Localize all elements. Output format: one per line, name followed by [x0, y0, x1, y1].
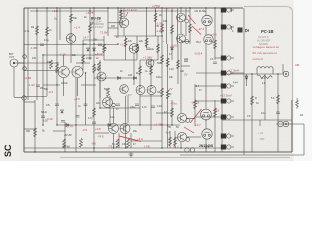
diode D5 — [87, 48, 90, 51]
transistor Q1 — [66, 34, 76, 44]
wire h35 — [231, 72, 244, 74]
node n16 — [155, 10, 156, 11]
wire v29 — [150, 94, 152, 130]
node n11 — [214, 7, 215, 8]
resistor R4 — [120, 10, 123, 19]
wire v5 — [56, 8, 58, 125]
node n34 — [75, 124, 76, 125]
ground symbol below frame — [129, 154, 134, 157]
resistor R16 — [107, 88, 110, 97]
node n6 — [146, 7, 147, 8]
resistor R8 — [124, 38, 127, 47]
svg-text:4Ω: 4Ω — [300, 114, 303, 117]
capacitor C8 — [116, 104, 120, 106]
wire v28 — [150, 60, 152, 86]
wire v68 — [303, 124, 305, 155]
transistor Q7 — [146, 59, 154, 67]
resistor R7 — [145, 38, 148, 47]
connector P1 — [221, 8, 234, 13]
resistor R13 — [50, 60, 53, 69]
resistor R21 — [63, 139, 66, 148]
node n30 — [161, 147, 162, 148]
node n24 — [99, 107, 100, 108]
resistor R14 — [82, 55, 85, 64]
wire v3 — [42, 55, 44, 125]
transistor Q18 (TO-3) — [202, 15, 212, 25]
red leader line to Q18 — [192, 26, 201, 35]
node n14 — [89, 10, 90, 11]
diode D10 — [134, 77, 137, 80]
wire v51 — [277, 74, 279, 152]
diode D3 — [61, 110, 64, 113]
transistor Q3 — [129, 44, 139, 54]
resistor R24 — [127, 139, 130, 148]
node n20 — [93, 43, 94, 44]
transistor Q13 — [120, 124, 130, 134]
scan noise overlay — [0, 0, 1, 1]
resistor R38 — [214, 40, 217, 49]
transistor Q17 — [177, 132, 186, 141]
node n17 — [171, 10, 172, 11]
wire v48 — [214, 100, 216, 152]
node E1 — [185, 19, 189, 23]
capacitor C7 — [276, 112, 280, 114]
wire h26 — [24, 128, 35, 130]
node n42 — [205, 119, 206, 120]
wire v4 — [46, 8, 48, 96]
wire v20 — [120, 8, 122, 28]
resistor R39 — [214, 108, 217, 117]
diode D6 — [93, 48, 96, 51]
red leader line lower driver — [184, 127, 194, 133]
connector P9 — [221, 145, 234, 150]
connector P5 — [221, 84, 234, 89]
terminal upper left — [23, 55, 27, 59]
node n4 — [107, 7, 108, 8]
wire h21 — [140, 95, 162, 97]
wire h10 — [43, 84, 60, 86]
sub-board box bottom right — [223, 120, 292, 152]
schematic sheet tint — [20, 4, 294, 161]
resistor R20 — [34, 128, 37, 137]
diode D7 by terminal F — [246, 29, 249, 32]
wire h2 — [108, 22, 119, 24]
node n9 — [189, 7, 190, 8]
resistor R37 — [56, 64, 59, 73]
wire v12 — [89, 8, 91, 60]
wire v7 — [64, 122, 66, 152]
node n19 — [56, 62, 57, 63]
transistor Q8 — [120, 85, 129, 94]
resistor R5 — [154, 13, 157, 22]
wire v53 — [123, 28, 125, 36]
wire v52 — [282, 64, 284, 74]
wire v66 — [59, 8, 61, 40]
terminal pair bottom — [185, 148, 195, 152]
resistor R17 — [161, 88, 164, 97]
wire v57 — [77, 78, 79, 96]
node n15 — [120, 10, 121, 11]
wire h30 — [215, 57, 221, 59]
node n21 — [117, 43, 118, 44]
svg-text:OUT: OUT — [9, 56, 15, 59]
resistor R41 — [171, 25, 174, 34]
wire v10 — [82, 40, 84, 70]
wire v0 — [27, 8, 29, 100]
wire v73 — [130, 152, 132, 157]
resistor R25 — [169, 137, 172, 146]
wire h1 — [118, 10, 190, 12]
wire v47 — [214, 8, 216, 60]
wire h36 — [14, 97, 24, 99]
connector P3 — [221, 56, 234, 61]
resistor R22 — [80, 139, 83, 148]
frame right lower border — [291, 100, 293, 152]
resistor R3 — [70, 14, 73, 23]
capacitor C3 — [55, 104, 59, 106]
wire v60 — [118, 133, 120, 148]
wire h31 — [196, 72, 221, 74]
wire h32 — [195, 85, 221, 87]
resistor R30 — [103, 44, 106, 53]
wire h34 — [195, 116, 221, 118]
wire v37 — [180, 8, 182, 13]
wire h39 — [108, 27, 118, 29]
wire h18 — [187, 136, 201, 138]
red arrow to Q2 — [126, 12, 129, 17]
wire v35 — [171, 100, 173, 125]
connector P2 — [221, 25, 234, 30]
resistor R_L1 parallel — [257, 74, 272, 79]
frame left border — [23, 8, 25, 152]
resistor R6 — [161, 24, 164, 33]
resistor R31 — [136, 44, 139, 53]
wire v22 — [125, 96, 127, 148]
capacitor C13 — [84, 104, 88, 106]
transistor Q6 — [97, 72, 106, 81]
wire v69 — [259, 120, 261, 126]
wire h24 — [83, 39, 104, 41]
wire v30 — [155, 8, 157, 36]
node n36 — [167, 124, 168, 125]
frame bottom border — [24, 151, 292, 153]
capacitor C15 — [61, 121, 65, 123]
wire v6 — [34, 100, 36, 152]
node n0 — [46, 7, 47, 8]
wire h9 — [94, 77, 136, 79]
wire h0 — [30, 10, 108, 12]
terminal lower left — [23, 67, 27, 71]
node n39 — [42, 124, 43, 125]
diode D8 — [245, 76, 248, 79]
wire v1 — [36, 8, 38, 100]
resistor R19 — [171, 108, 174, 117]
svg-text:SC: SC — [3, 144, 13, 157]
wire v65 — [185, 23, 187, 36]
wire h6 — [14, 62, 59, 64]
output terminal — [283, 71, 289, 77]
resistor R26 — [174, 137, 177, 146]
node n12 — [36, 10, 37, 11]
capacitor C6 — [184, 60, 188, 62]
node n10 — [205, 7, 206, 8]
node n13 — [56, 10, 57, 11]
module label BU-2B — [91, 17, 104, 29]
red leader line upper — [188, 15, 196, 24]
wire h23 — [140, 59, 158, 61]
node n25 — [139, 124, 140, 125]
wire h16 — [276, 123, 304, 125]
wire h14 — [222, 119, 292, 121]
wire v45 — [205, 120, 207, 129]
wire h20 — [24, 147, 222, 149]
wire v49 — [231, 8, 233, 12]
wire v34 — [171, 8, 173, 60]
node n18 — [42, 54, 43, 55]
wire v27 — [146, 8, 148, 48]
resistor R10 — [161, 55, 164, 64]
wire v50 — [251, 74, 253, 152]
wire v74 — [246, 74, 248, 86]
wire v75 — [177, 8, 179, 44]
node n33 — [56, 124, 57, 125]
input jack label BFT OUT — [9, 53, 15, 59]
wire v71 — [205, 8, 207, 15]
wire v41 — [189, 8, 191, 44]
wire v42 — [194, 84, 196, 126]
wire v14 — [99, 60, 101, 108]
wire v76 — [166, 8, 168, 44]
node E3 — [186, 119, 190, 123]
transistor Q20 (TO-3) — [201, 109, 212, 120]
wire h11 — [81, 84, 96, 86]
diode D4 — [171, 47, 174, 50]
wire h25 — [156, 112, 172, 114]
node n22 — [56, 84, 57, 85]
node n35 — [113, 147, 114, 148]
resistor R15 — [93, 64, 96, 73]
transistor Q2 — [119, 18, 129, 28]
node n44 — [139, 85, 140, 86]
resistor R28 — [277, 95, 280, 104]
node n32 — [205, 147, 206, 148]
resistor output net squiggle — [296, 98, 299, 109]
wire v54 — [123, 8, 125, 18]
resistor R40 — [194, 100, 197, 109]
node n41 — [161, 35, 162, 36]
transistor Q15 — [177, 34, 186, 43]
wire v36 — [177, 44, 179, 84]
frame top border — [24, 7, 243, 9]
resistor R1 — [36, 26, 39, 35]
wire v33 — [167, 44, 169, 148]
wire v9 — [75, 78, 77, 152]
node n7 — [161, 7, 162, 8]
wire v18 — [113, 133, 115, 148]
capacitor C11 — [135, 104, 139, 106]
inner vertical border x=222 — [221, 8, 223, 152]
wire v32 — [161, 8, 163, 148]
red leader line to Q20 — [190, 109, 202, 123]
wire v2 — [13, 67, 15, 97]
inner vertical border x=244 — [243, 8, 245, 155]
paper background — [0, 0, 312, 161]
wire v62 — [169, 131, 171, 148]
terminal F top right — [232, 28, 243, 34]
wire v44 — [205, 44, 207, 109]
wire v25 — [139, 60, 141, 86]
page top-right edge — [244, 7, 293, 101]
node n31 — [180, 147, 181, 148]
wire v15 — [103, 36, 105, 60]
node n28 — [93, 147, 94, 148]
node n37 — [251, 73, 252, 74]
wire v39 — [180, 43, 182, 113]
resistor R34 — [139, 66, 142, 75]
wire v24 — [136, 36, 138, 60]
wire h12 — [24, 96, 47, 98]
wire v31 — [157, 36, 159, 60]
resistor R2 — [46, 27, 49, 36]
wire v55 — [63, 55, 65, 66]
resistor R35 — [150, 66, 153, 75]
diode D9 — [118, 77, 121, 80]
wire v46 — [205, 139, 207, 152]
wire h40 — [24, 101, 35, 103]
transistor Q10 — [147, 86, 156, 95]
wire v63 — [174, 131, 176, 148]
wire v59 — [127, 96, 129, 123]
wire h4 — [24, 44, 118, 46]
node n26 — [161, 124, 162, 125]
resistor R23 — [116, 139, 119, 148]
wire h15 — [57, 124, 180, 126]
wire h22 — [104, 59, 137, 61]
capacitor C1 — [40, 44, 44, 46]
wire v8 — [70, 8, 72, 63]
node n8 — [180, 7, 181, 8]
wire v61 — [130, 133, 132, 148]
capacitor C5 — [151, 106, 155, 108]
wire v21 — [125, 36, 127, 60]
transistor Q11 — [103, 98, 113, 108]
wire v26 — [139, 94, 141, 125]
node n3 — [93, 7, 94, 8]
wire v19 — [117, 8, 119, 36]
resistor R11 — [166, 58, 169, 67]
node n29 — [125, 147, 126, 148]
wire v11 — [85, 73, 87, 125]
transistor Q5 — [72, 66, 83, 77]
diode D1 — [66, 124, 69, 127]
node n27 — [171, 124, 172, 125]
capacitor C10 — [213, 62, 217, 64]
wire h29 — [186, 118, 195, 120]
transistor Q14 — [177, 13, 186, 22]
wire v43 — [205, 25, 207, 35]
capacitor C12 — [98, 44, 102, 46]
wire h28 — [181, 41, 190, 43]
wire h27 — [181, 65, 190, 67]
input jack J1 — [10, 59, 24, 67]
node n40 — [34, 151, 35, 152]
resistor R29 — [89, 24, 92, 33]
wire h7 — [76, 62, 90, 64]
node n43 — [150, 85, 151, 86]
node E2 — [185, 40, 189, 44]
inductor L1 coil — [257, 67, 273, 75]
capacitor C2 — [36, 85, 40, 87]
wire v16 — [107, 8, 109, 36]
capacitor C4 — [146, 48, 150, 50]
resistor R27 — [251, 96, 254, 105]
wire v23 — [133, 53, 135, 85]
wire h17 — [95, 132, 109, 134]
capacitor C9 — [92, 122, 96, 124]
resistor R36 — [93, 108, 96, 117]
wire v72 — [264, 74, 266, 120]
wire h38 — [24, 70, 58, 72]
white margin right of page edge — [294, 0, 313, 161]
terminal on left frame — [22, 96, 26, 100]
node E5 — [112, 103, 116, 107]
svg-text:AM: AM — [295, 63, 300, 67]
wire h19 — [131, 140, 162, 142]
wire h8 — [222, 73, 283, 75]
module label PC-1B — [257, 29, 274, 46]
transistor Q4 — [58, 66, 69, 77]
diode D2 — [108, 124, 111, 127]
wire v17 — [113, 108, 115, 123]
resistor R33 — [177, 60, 180, 69]
wire h33 — [195, 100, 221, 102]
footprint marks in box — [258, 132, 265, 141]
transistor Q12 — [109, 124, 119, 134]
connector P8 — [221, 134, 234, 139]
node n23 — [85, 72, 86, 73]
node E4 — [186, 138, 190, 142]
next sheet top edge — [60, 157, 290, 159]
wire h13 — [100, 107, 140, 109]
node n2 — [70, 7, 71, 8]
node n45 — [136, 72, 137, 73]
wire v64 — [185, 8, 187, 19]
resistor R32 — [157, 44, 160, 53]
transistor Q16 — [177, 113, 186, 122]
red leader line bottom pair — [119, 136, 141, 142]
wire h37 — [53, 130, 65, 132]
wire v58 — [99, 81, 101, 98]
wire v13 — [93, 8, 95, 152]
node n1 — [56, 7, 57, 8]
transistor Q19 (TO-3) — [204, 35, 214, 45]
connector P4 — [221, 71, 234, 76]
connector P7 — [221, 115, 234, 120]
resistor R18 — [166, 90, 169, 99]
capacitor C16 — [76, 116, 80, 118]
transistor Q21 (TO-3) — [202, 129, 212, 139]
bottom parallel rail — [180, 154, 304, 156]
transistor Q9 — [136, 86, 145, 95]
wire h3 — [114, 35, 162, 37]
node n38 — [277, 73, 278, 74]
connector P6 — [221, 99, 234, 104]
wire h5 — [43, 54, 104, 56]
wire v56 — [63, 78, 65, 96]
node n5 — [117, 7, 118, 8]
double terminal bottom right — [278, 121, 289, 127]
wire v70 — [231, 26, 233, 30]
